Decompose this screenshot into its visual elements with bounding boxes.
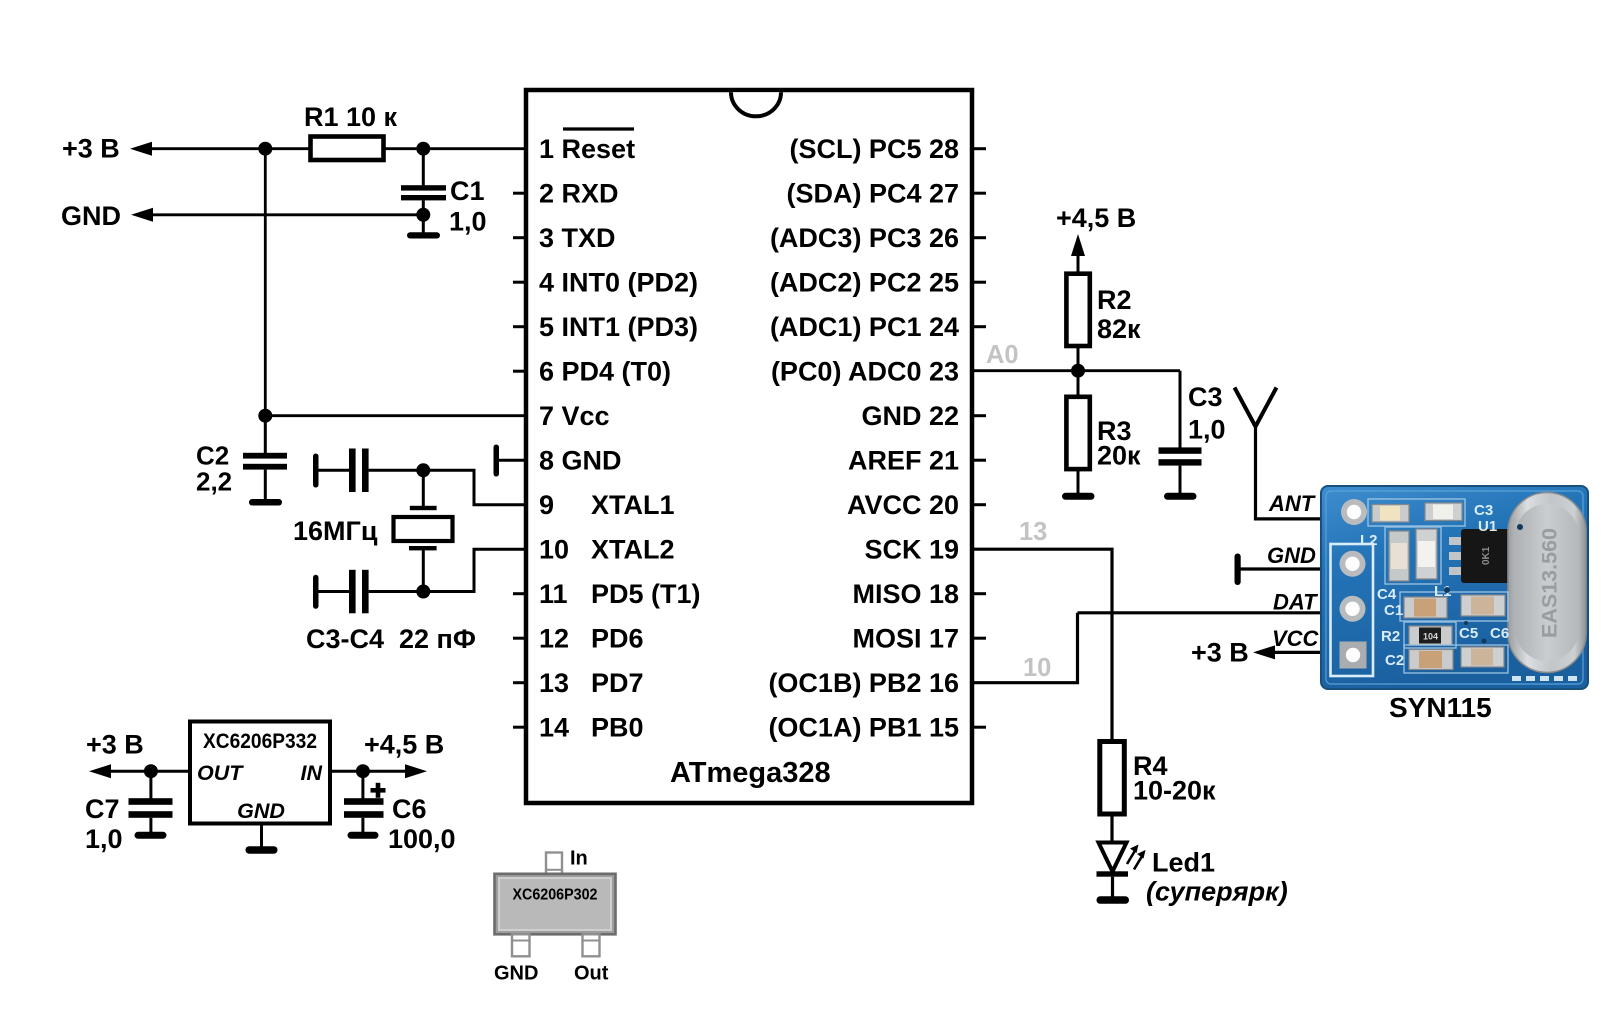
svg-text:GND: GND [61, 201, 121, 231]
svg-text:11: 11 [539, 579, 568, 609]
wire pin 16 to DAT [972, 613, 1078, 683]
+3V arrow (module VCC) [1253, 645, 1275, 659]
crystal Y1 16MHz [394, 470, 453, 591]
C1 label [449, 176, 487, 237]
module SMD L2 vertical 2 [1416, 529, 1437, 579]
module crystal EAS13.560 [1508, 493, 1586, 673]
svg-text:C3-C4 22 пФ: C3-C4 22 пФ [306, 624, 476, 654]
+3V arrow (regulator out) [89, 764, 111, 778]
LED Led1 symbol [1097, 843, 1129, 899]
pin 10 label [539, 535, 675, 565]
svg-text:10-20к: 10-20к [1133, 776, 1216, 806]
regulator ground bar [246, 846, 278, 854]
wire R3 to ground [1077, 469, 1080, 495]
module bottom silkscreen ticks [1345, 478, 1577, 681]
svg-text:+3 В: +3 В [86, 730, 144, 760]
module SMD cap right bottom [1461, 647, 1504, 667]
pin 8 GND terminal [494, 445, 527, 477]
wire Vcc node to pin 7 [265, 414, 526, 417]
svg-text:XTAL2: XTAL2 [591, 535, 675, 565]
junction OUT/C7 [144, 764, 158, 778]
module silkscreen labels [1360, 502, 1509, 669]
svg-text:L2: L2 [1360, 532, 1378, 549]
svg-text:XC6206P302: XC6206P302 [513, 887, 598, 904]
module SMD C1 cap [1404, 597, 1447, 618]
C7 label [85, 794, 123, 854]
svg-text:IN: IN [301, 761, 323, 785]
svg-text:MISO 18: MISO 18 [852, 579, 959, 609]
svg-text:1,0: 1,0 [1188, 415, 1226, 445]
IC U1 ATmega328 body [526, 90, 972, 803]
svg-text:C7: C7 [85, 794, 120, 824]
svg-text:(ADC2) PC2 25: (ADC2) PC2 25 [770, 268, 959, 298]
svg-text:U1: U1 [1478, 518, 1497, 535]
wire R4 to LED [1110, 814, 1113, 843]
module silkscreen connector box [1331, 544, 1374, 676]
C7 ground bar [135, 832, 167, 839]
C6 label [388, 794, 456, 854]
pin 12 stub [513, 637, 526, 640]
pin 25 stub [972, 281, 986, 284]
pin 11 stub [513, 592, 526, 595]
wire R1 to pin 1 [384, 147, 527, 150]
svg-text:(ADC1) PC1 24: (ADC1) PC1 24 [770, 312, 959, 342]
pin 22 stub [972, 414, 986, 417]
module pad VCC square [1340, 642, 1367, 669]
svg-text:C1: C1 [450, 176, 485, 206]
junction IN/C6 [356, 764, 370, 778]
module SMD C5-C6 cap [1461, 595, 1505, 616]
pin 9 label [539, 490, 675, 520]
pin 5 stub [513, 325, 526, 328]
svg-text:Out: Out [574, 963, 609, 985]
module SMD R2 resistor [1409, 626, 1452, 645]
+3V arrow [130, 142, 152, 156]
module SMD L2 vertical 1 [1389, 531, 1409, 581]
svg-text:2 RXD: 2 RXD [539, 179, 619, 209]
C3 left terminal (22pF) [313, 454, 349, 488]
svg-text:In: In [570, 848, 588, 870]
svg-text:13: 13 [539, 668, 569, 698]
capacitor C3 (1,0) [1159, 447, 1202, 495]
svg-text:1 Reset: 1 Reset [539, 134, 635, 164]
svg-text:PD5 (T1): PD5 (T1) [591, 579, 701, 609]
pin 4 stub [513, 281, 526, 284]
svg-text:C3: C3 [1474, 502, 1493, 519]
pin 2 stub [513, 192, 526, 195]
module silkscreen footprint outlines [1368, 499, 1508, 673]
C3 (1,0) label [1188, 382, 1226, 445]
pin 20 stub [972, 503, 986, 506]
svg-text:DAT: DAT [1273, 590, 1318, 615]
+4,5V arrow up [1071, 234, 1085, 256]
svg-text:C4: C4 [1377, 586, 1397, 603]
svg-text:3 TXD: 3 TXD [539, 223, 616, 253]
svg-text:C1: C1 [1384, 602, 1403, 619]
svg-text:GND: GND [494, 963, 538, 985]
svg-text:PD6: PD6 [591, 624, 644, 654]
pin 27 stub [972, 192, 986, 195]
package bottom pin GND [512, 934, 530, 956]
capacitor C4 22pF plates [349, 570, 369, 614]
wire arrow to R2 [1077, 252, 1080, 274]
GND arrow [131, 208, 153, 222]
regulator GND lead [260, 824, 263, 848]
svg-text:C6: C6 [1490, 625, 1509, 642]
wire A0 node to R3 [1077, 371, 1080, 397]
svg-text:+4,5 В: +4,5 В [1056, 203, 1136, 233]
pin 3 stub [513, 236, 526, 239]
junction C1/GND net [416, 208, 430, 222]
pin 11 label [539, 579, 701, 609]
junction +3V rail [258, 142, 272, 156]
svg-text:10: 10 [1023, 654, 1051, 682]
junction Vcc node [258, 409, 272, 423]
capacitor C3 22pF plates [349, 449, 369, 493]
wire pin 19 to R4 [972, 549, 1112, 742]
XC6206P302 package top pin In [546, 853, 562, 875]
svg-text:4 INT0 (PD2): 4 INT0 (PD2) [539, 268, 698, 298]
module GND terminal bar [1235, 554, 1323, 586]
module hole DAT [1340, 596, 1366, 622]
LED light arrows [1127, 845, 1146, 870]
pin 6 stub [513, 370, 526, 373]
svg-text:14: 14 [539, 713, 569, 743]
svg-text:GND 22: GND 22 [861, 401, 959, 431]
svg-text:+4,5 В: +4,5 В [364, 730, 444, 760]
svg-text:1,0: 1,0 [449, 207, 487, 237]
svg-text:8 GND: 8 GND [539, 446, 622, 476]
C3 ground bar [1164, 493, 1197, 500]
svg-text:SCK 19: SCK 19 [864, 535, 959, 565]
svg-text:PB0: PB0 [591, 713, 644, 743]
pin 24 stub [972, 325, 986, 328]
R3 label [1097, 416, 1141, 471]
svg-text:C3: C3 [1188, 382, 1223, 412]
resistor R3 [1066, 397, 1089, 469]
antenna symbol [1235, 388, 1323, 519]
svg-text:(SDA) PC4 27: (SDA) PC4 27 [786, 179, 959, 209]
svg-text:C2: C2 [1385, 652, 1404, 669]
svg-text:7 Vcc: 7 Vcc [539, 401, 610, 431]
svg-text:MOSI 17: MOSI 17 [852, 624, 959, 654]
svg-text:82к: 82к [1097, 314, 1141, 344]
svg-text:XTAL1: XTAL1 [591, 490, 675, 520]
pin 28 stub [972, 147, 986, 150]
pin 18 stub [972, 592, 986, 595]
XC6206P302 package body [495, 874, 616, 935]
C2 label [196, 441, 232, 497]
pin 21 stub [972, 459, 986, 462]
resistor R4 [1100, 742, 1125, 815]
svg-text:10: 10 [539, 535, 569, 565]
C1 ground bar [407, 232, 440, 238]
svg-text:R2: R2 [1097, 285, 1132, 315]
junction XTAL2 node [416, 585, 430, 599]
pin 13 stub [513, 681, 526, 684]
module SMD C2 cap [1409, 650, 1453, 670]
svg-text:GND: GND [237, 799, 285, 823]
R2 label [1097, 285, 1141, 344]
resistor R1 [311, 137, 384, 161]
svg-text:OUT: OUT [197, 761, 244, 785]
+4,5V arrow (regulator in) [405, 764, 427, 778]
pin 26 stub [972, 236, 986, 239]
wire DAT net [1078, 611, 1323, 614]
module via dots [1444, 524, 1523, 644]
regulator U2 XC6206P332 box [190, 722, 330, 824]
svg-text:(SCL) PC5 28: (SCL) PC5 28 [789, 134, 959, 164]
wire C4 to XTAL2 node [369, 590, 424, 593]
svg-text:GND: GND [1267, 543, 1316, 568]
wire C3 to XTAL1 node [369, 469, 424, 472]
svg-text:C6: C6 [392, 794, 427, 824]
wire A0 node to C3 [1179, 371, 1182, 448]
module hole GND [1340, 551, 1366, 577]
pin 14 stub [513, 726, 526, 729]
svg-text:1,0: 1,0 [85, 824, 123, 854]
svg-text:(OC1A) PB1 15: (OC1A) PB1 15 [768, 713, 959, 743]
wire +3V to R1 [149, 147, 310, 150]
LED ground bar [1097, 896, 1130, 904]
svg-text:20к: 20к [1097, 441, 1141, 471]
svg-text:R2: R2 [1381, 628, 1400, 645]
svg-text:2,2: 2,2 [196, 467, 232, 497]
svg-text:EAS13.560: EAS13.560 [1538, 528, 1562, 638]
svg-text:ATmega328: ATmega328 [670, 757, 831, 789]
wire IN [330, 770, 408, 773]
module IC U1 SOT23-6 [1449, 529, 1523, 583]
module PCB board [1321, 486, 1588, 689]
svg-text:13: 13 [1019, 518, 1047, 546]
module SMD top resistor 2 [1425, 503, 1462, 521]
svg-text:100,0: 100,0 [388, 824, 456, 854]
svg-text:5 INT1 (PD3): 5 INT1 (PD3) [539, 312, 698, 342]
svg-text:104: 104 [1423, 632, 1438, 642]
wire VCC to module [1273, 651, 1322, 654]
svg-text:C5: C5 [1459, 625, 1478, 642]
C6 ground bar [348, 832, 379, 839]
module SMD C3 top resistor 1 [1372, 505, 1409, 523]
capacitor C2 [243, 416, 287, 500]
wire OUT [109, 770, 190, 773]
svg-text:A0: A0 [986, 341, 1019, 369]
pin 12 label [539, 624, 644, 654]
junction A0 node [1071, 364, 1085, 378]
svg-text:(OC1B) PB2 16: (OC1B) PB2 16 [768, 668, 959, 698]
svg-text:16МГц: 16МГц [293, 516, 378, 546]
svg-text:(суперярк): (суперярк) [1146, 877, 1288, 907]
pin 17 stub [972, 637, 986, 640]
wire R2 to A0 node [1077, 346, 1080, 372]
svg-text:6 PD4 (T0): 6 PD4 (T0) [539, 357, 671, 387]
svg-text:(ADC3) PC3 26: (ADC3) PC3 26 [770, 223, 959, 253]
junction R1/C1 [416, 142, 430, 156]
C2 ground bar [249, 499, 282, 506]
svg-text:12: 12 [539, 624, 569, 654]
capacitor C1 [401, 149, 446, 233]
pin 1 label Reset with overline [539, 129, 635, 164]
wire GND net [150, 213, 423, 216]
svg-text:9: 9 [539, 490, 554, 520]
SYN115 module photo [1321, 478, 1588, 689]
pin 15 stub [972, 726, 986, 729]
svg-text:XC6206P332: XC6206P332 [203, 730, 317, 753]
R4 label [1133, 751, 1216, 806]
svg-text:0K1: 0K1 [1481, 546, 1492, 565]
capacitor C6 [344, 771, 384, 833]
pin 13 label [539, 668, 644, 698]
svg-text:SYN115: SYN115 [1389, 692, 1492, 723]
wire +3V rail vertical [264, 149, 267, 416]
svg-text:ANT: ANT [1268, 491, 1316, 516]
svg-text:AVCC 20: AVCC 20 [847, 490, 959, 520]
junction XTAL1 node [416, 463, 430, 477]
svg-text:+3 В: +3 В [1191, 638, 1249, 668]
wire A0 net pin 23 [972, 369, 1180, 372]
wire XTAL2 node to pin 10 [423, 549, 526, 591]
pin 14 label [539, 713, 644, 743]
svg-text:R1 10 к: R1 10 к [304, 102, 398, 132]
svg-text:+3 В: +3 В [62, 134, 120, 164]
resistor R2 [1066, 274, 1089, 346]
wire XTAL1 node to pin 9 [423, 470, 526, 504]
svg-text:(PC0) ADC0 23: (PC0) ADC0 23 [771, 357, 959, 387]
package bottom pin Out [583, 934, 600, 956]
capacitor C7 [129, 771, 173, 833]
svg-text:VCC: VCC [1272, 626, 1320, 651]
capacitor C6 polarity plus [371, 783, 386, 798]
C4 left terminal (22pF) [313, 575, 349, 609]
svg-text:Led1: Led1 [1152, 848, 1215, 878]
R3 ground bar [1062, 493, 1095, 500]
svg-text:AREF 21: AREF 21 [848, 446, 959, 476]
module hole ANT [1341, 499, 1367, 525]
svg-text:PD7: PD7 [591, 668, 644, 698]
